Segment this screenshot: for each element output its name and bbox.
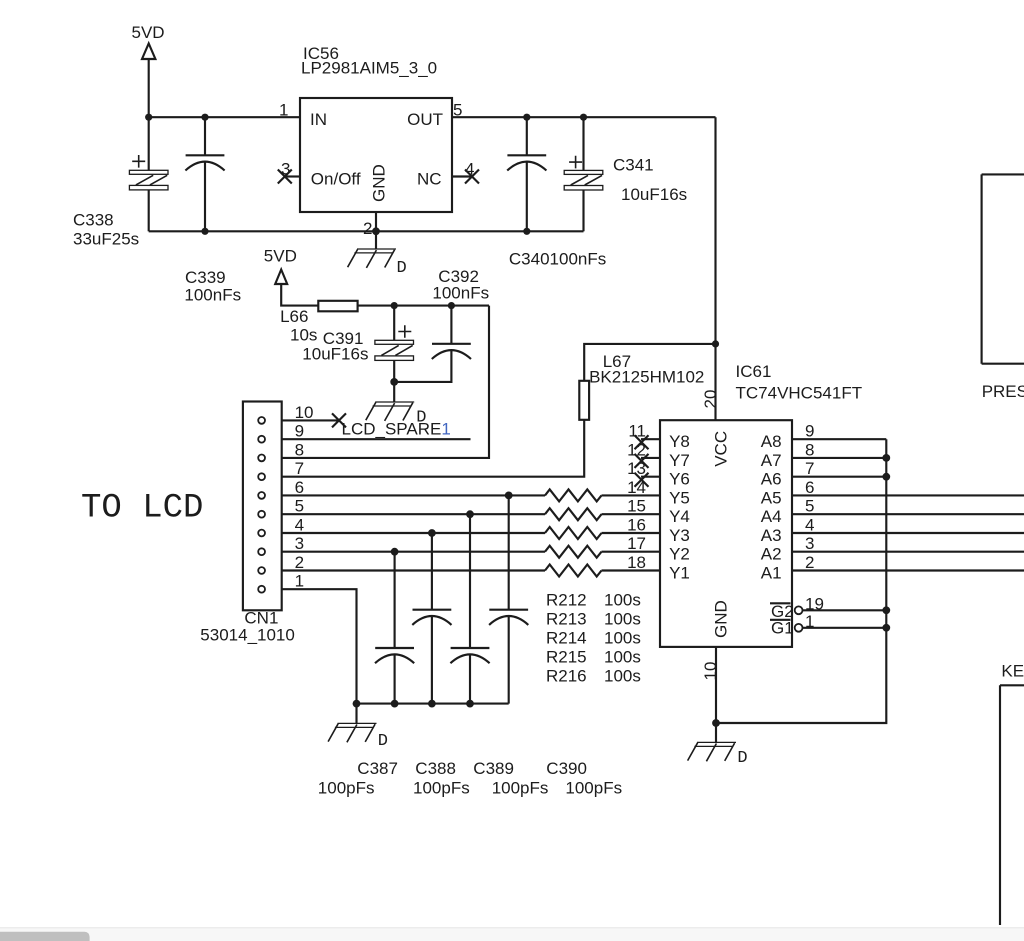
junction with L67 branch — [712, 340, 719, 347]
svg-text:12: 12 — [627, 440, 646, 459]
junction rail C389 — [466, 700, 474, 708]
capacitor C390 — [489, 495, 528, 703]
resistor R214 — [545, 527, 602, 539]
IC56 voltage regulator box — [300, 98, 452, 212]
pin 13 stub with no-connect X — [635, 473, 661, 487]
svg-text:Y6: Y6 — [669, 470, 690, 489]
pin 12 stub with no-connect X — [635, 454, 661, 468]
resistor R213 — [545, 508, 602, 520]
svg-text:C338: C338 — [73, 211, 114, 230]
junction C390 tap — [505, 492, 513, 500]
capacitor C339 (100nF, at x=205) — [185, 117, 224, 231]
junction C339 bottom — [201, 228, 208, 235]
svg-text:1: 1 — [295, 572, 304, 591]
junction C391 top — [391, 302, 398, 309]
pin G1 bubble — [795, 624, 803, 632]
svg-text:C341: C341 — [613, 156, 654, 175]
svg-text:LP2981AIM5_3_0: LP2981AIM5_3_0 — [301, 59, 437, 78]
svg-text:C340100nFs: C340100nFs — [509, 250, 606, 269]
svg-text:IN: IN — [310, 110, 327, 129]
wire rail ground stub — [355, 704, 357, 724]
wire pin 7 row to L67 — [282, 420, 585, 477]
svg-text:L66: L66 — [280, 307, 308, 326]
svg-text:D: D — [378, 732, 388, 751]
junction rail C388 — [428, 700, 436, 708]
svg-text:100pFs: 100pFs — [492, 778, 549, 797]
pin G2 bubble — [795, 606, 803, 614]
svg-text:BK2125HM102: BK2125HM102 — [589, 368, 704, 387]
svg-text:Y4: Y4 — [669, 507, 690, 526]
svg-text:15: 15 — [627, 497, 646, 516]
wire bottom capacitor ground rail — [357, 703, 509, 705]
svg-text:NC: NC — [417, 170, 442, 189]
svg-text:100s: 100s — [604, 610, 641, 629]
junction at C338 top — [145, 114, 152, 121]
capacitor C340 (100nF) — [507, 117, 546, 231]
svg-text:8: 8 — [295, 440, 304, 459]
svg-text:8: 8 — [805, 440, 814, 459]
svg-text:KEY: KEY — [1001, 661, 1024, 680]
capacitor C338 (electrolytic) — [129, 117, 168, 231]
svg-text:13: 13 — [627, 459, 646, 478]
junction C391/C392 bottom — [390, 378, 398, 386]
pin name G2 with overline — [770, 602, 794, 621]
svg-text:100s: 100s — [604, 629, 641, 648]
junction C392 top — [448, 302, 455, 309]
svg-text:Y7: Y7 — [669, 451, 690, 470]
junction at C341 top — [580, 114, 587, 121]
svg-text:10uF16s: 10uF16s — [302, 344, 368, 363]
junction C340 bottom — [523, 228, 530, 235]
scrollbar track border — [0, 927, 1024, 928]
wire L66 to corner at x489 — [358, 305, 489, 307]
ground symbol D (IC61) — [688, 742, 736, 761]
junction rail at pin1 drop — [353, 700, 361, 708]
junction C387 tap — [391, 548, 399, 556]
svg-text:C388: C388 — [415, 759, 456, 778]
svg-text:2: 2 — [805, 553, 814, 572]
wire A7 pin 8 — [792, 457, 886, 459]
svg-text:10: 10 — [295, 403, 314, 422]
svg-text:D: D — [397, 259, 407, 278]
svg-text:G1: G1 — [771, 619, 794, 638]
wire input rail to IC56 IN pin 1 — [149, 116, 300, 118]
svg-text:4: 4 — [295, 516, 304, 535]
scrollbar thumb — [0, 932, 90, 941]
junction G2 bus — [882, 606, 890, 614]
svg-text:6: 6 — [295, 478, 304, 497]
no-connect X pin 10 — [332, 413, 346, 427]
wire IC56 GND pin to ground rail — [375, 212, 377, 231]
svg-text:100s: 100s — [604, 648, 641, 667]
wire pin 4 row — [282, 532, 545, 534]
svg-text:5: 5 — [805, 497, 814, 516]
svg-text:R215: R215 — [546, 648, 587, 667]
svg-text:TC74VHC541FT: TC74VHC541FT — [736, 383, 863, 402]
pin 3 stub with no-connect X — [278, 170, 300, 184]
svg-text:A5: A5 — [761, 488, 782, 507]
wire pin 10 stub — [282, 419, 339, 421]
CN1 pin circles — [258, 417, 265, 593]
svg-text:D: D — [737, 749, 747, 768]
svg-text:5: 5 — [295, 497, 304, 516]
svg-text:100pFs: 100pFs — [413, 778, 470, 797]
svg-text:5VD: 5VD — [264, 247, 297, 266]
ground symbol D (cap rail) — [328, 723, 376, 742]
svg-text:On/Off: On/Off — [311, 170, 361, 189]
svg-text:16: 16 — [627, 516, 646, 535]
svg-text:10s: 10s — [290, 326, 317, 345]
svg-text:20: 20 — [701, 390, 720, 409]
svg-text:100pFs: 100pFs — [318, 778, 375, 797]
svg-text:3: 3 — [295, 534, 304, 553]
junction rail C387 — [391, 700, 399, 708]
junction G1 bus — [882, 624, 890, 632]
wire A6 pin 7 — [792, 476, 886, 478]
wire 5VD stem to input rail — [148, 59, 150, 117]
svg-text:C387: C387 — [357, 759, 398, 778]
svg-text:A2: A2 — [761, 545, 782, 564]
partial box KEY (bottom right) — [1000, 685, 1024, 925]
svg-text:2: 2 — [295, 553, 304, 572]
ground symbol D (IC56) — [348, 249, 396, 268]
connector CN1 body — [243, 402, 282, 611]
svg-text:A7: A7 — [761, 451, 782, 470]
svg-text:4: 4 — [805, 516, 814, 535]
svg-text:14: 14 — [627, 478, 646, 497]
wire A3 pin 4 to right edge — [792, 532, 1024, 534]
svg-text:7: 7 — [295, 459, 304, 478]
inductor L67 — [579, 381, 589, 420]
svg-text:100pFs: 100pFs — [565, 778, 622, 797]
svg-text:100s: 100s — [604, 667, 641, 686]
svg-text:9: 9 — [805, 422, 814, 441]
svg-text:1: 1 — [805, 612, 814, 631]
wire L67 top to VCC rail junction — [584, 344, 715, 381]
svg-text:A4: A4 — [761, 507, 782, 526]
junction A6 bus — [882, 473, 890, 481]
svg-text:Y1: Y1 — [669, 564, 690, 583]
wire down to ground — [393, 382, 395, 402]
svg-text:A3: A3 — [761, 526, 782, 545]
svg-text:2: 2 — [363, 219, 372, 238]
svg-text:A6: A6 — [761, 470, 782, 489]
svg-text:100nFs: 100nFs — [432, 284, 489, 303]
capacitor C391 (electrolytic) — [375, 306, 414, 382]
svg-text:7: 7 — [805, 459, 814, 478]
svg-text:6: 6 — [805, 478, 814, 497]
svg-text:9: 9 — [295, 422, 304, 441]
wire pin 5 row — [282, 513, 545, 515]
svg-text:C390: C390 — [546, 759, 587, 778]
wire R212 to Y5 — [602, 494, 661, 496]
junction IC61 ground — [712, 719, 720, 727]
wire bottom ground rail of regulator — [149, 230, 584, 232]
wire G1 pin 1 — [803, 627, 887, 629]
svg-text:R214: R214 — [546, 629, 587, 648]
wire pin 3 row — [282, 551, 545, 553]
wire vertical from OUT rail down to IC61 VCC — [714, 117, 716, 420]
wire R215 to Y2 — [602, 551, 661, 553]
power symbol 5VD (second) — [264, 247, 297, 285]
svg-text:VCC: VCC — [711, 431, 730, 467]
IC61 buffer box — [660, 420, 792, 647]
svg-text:1: 1 — [279, 101, 288, 120]
svg-text:10uF16s: 10uF16s — [621, 185, 687, 204]
wire A1 pin 2 to right edge — [792, 569, 1024, 571]
junction GND pin on rail — [372, 227, 380, 235]
inductor L66 — [318, 301, 357, 312]
wire R214 to Y3 — [602, 532, 661, 534]
wire pin 2 row — [282, 569, 545, 571]
wire IC56 OUT pin 5 to corner — [452, 116, 716, 118]
ground symbol D (C391/C392) — [366, 402, 414, 421]
svg-text:IC61: IC61 — [736, 362, 772, 381]
junction at C339 top — [201, 114, 208, 121]
capacitor C388 — [412, 533, 451, 704]
capacitor C387 — [375, 552, 414, 704]
wire A8 pin 9 to bus corner — [792, 438, 886, 440]
wire G2 pin 19 — [803, 609, 887, 611]
svg-text:PRESS: PRESS — [982, 382, 1024, 401]
wire A4 pin 5 to right edge — [792, 513, 1024, 515]
svg-text:Y8: Y8 — [669, 432, 690, 451]
svg-text:17: 17 — [627, 534, 646, 553]
resistor R215 — [545, 546, 602, 558]
svg-text:A8: A8 — [761, 432, 782, 451]
junction C388 tap — [428, 529, 436, 537]
svg-text:100nFs: 100nFs — [184, 286, 241, 305]
svg-text:LCD_SPARE1: LCD_SPARE1 — [342, 420, 451, 439]
capacitor C392 (100nF) — [394, 306, 471, 382]
svg-text:C389: C389 — [473, 759, 514, 778]
wire A2 pin 3 to right edge — [792, 551, 1024, 553]
junction at C340 top — [523, 114, 530, 121]
svg-text:TO LCD: TO LCD — [81, 489, 203, 527]
wire 5VD second stem — [281, 284, 318, 306]
svg-text:19: 19 — [805, 595, 824, 614]
power symbol 5VD (top left) — [132, 23, 165, 59]
svg-text:18: 18 — [627, 553, 646, 572]
wire pin 1 row to ground rail — [282, 589, 357, 703]
pin name G1 with overline — [770, 619, 794, 638]
pin 4 stub with no-connect X — [452, 170, 479, 184]
svg-text:53014_1010: 53014_1010 — [200, 626, 295, 645]
resistor R216 — [545, 565, 602, 577]
wire pin 9 stub LCD_SPARE1 — [282, 438, 471, 440]
pin 11 stub with no-connect X — [635, 435, 661, 449]
wire filtered 5V down to pin 8 row — [282, 306, 489, 458]
capacitor C341 (electrolytic) — [564, 117, 603, 231]
capacitor C389 — [450, 514, 489, 703]
wire pin 6 row — [282, 494, 545, 496]
svg-text:Y3: Y3 — [669, 526, 690, 545]
wire enable bus vertical to ground rail — [716, 439, 886, 723]
svg-text:R216: R216 — [546, 667, 587, 686]
svg-text:OUT: OUT — [407, 110, 443, 129]
svg-text:5VD: 5VD — [132, 23, 165, 42]
svg-text:R212: R212 — [546, 591, 587, 610]
wire ground stub below rail — [375, 231, 377, 249]
svg-text:C339: C339 — [185, 268, 226, 287]
svg-text:100s: 100s — [604, 591, 641, 610]
wire ground stub — [715, 723, 717, 742]
svg-text:A1: A1 — [761, 564, 782, 583]
wire R216 to Y1 — [602, 569, 661, 571]
wire R213 to Y4 — [602, 513, 661, 515]
svg-text:11: 11 — [628, 422, 646, 441]
svg-text:GND: GND — [711, 600, 730, 638]
scrollbar track — [0, 927, 1024, 941]
svg-text:33uF25s: 33uF25s — [73, 230, 139, 249]
svg-text:Y2: Y2 — [669, 545, 690, 564]
svg-text:10: 10 — [701, 662, 720, 681]
resistor R212 — [545, 489, 602, 501]
junction C389 tap — [466, 510, 474, 518]
svg-text:Y5: Y5 — [669, 488, 690, 507]
partial box PRESS (top right) — [982, 174, 1024, 363]
junction A7 bus — [882, 454, 890, 462]
wire A5 pin 6 to right edge — [792, 494, 1024, 496]
svg-text:R213: R213 — [546, 610, 587, 629]
svg-text:3: 3 — [805, 534, 814, 553]
svg-text:GND: GND — [370, 164, 389, 202]
wire IC61 GND pin 10 stub — [715, 647, 717, 723]
